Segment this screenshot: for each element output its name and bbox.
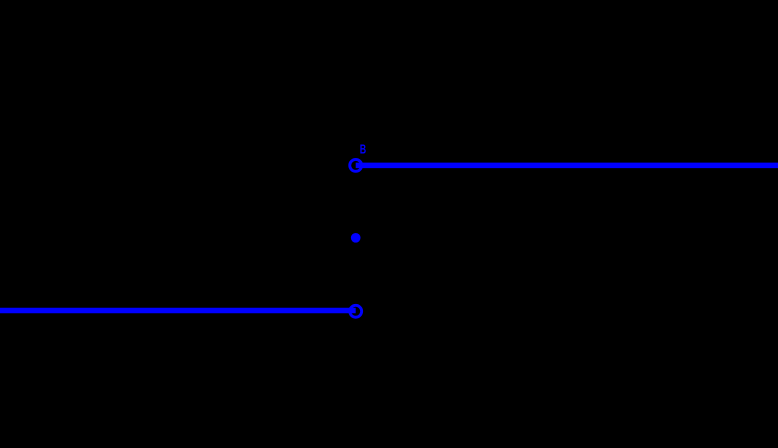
filled midpoint dot at x=0	[351, 233, 361, 243]
upper branch segment (y=d for x>0)	[356, 163, 778, 169]
open endpoint circle, upper branch (point B)	[350, 159, 362, 171]
svg-text:B: B	[360, 141, 366, 156]
lower branch segment (y=c for x<0)	[0, 308, 356, 314]
open endpoint circle, lower branch	[350, 305, 362, 317]
